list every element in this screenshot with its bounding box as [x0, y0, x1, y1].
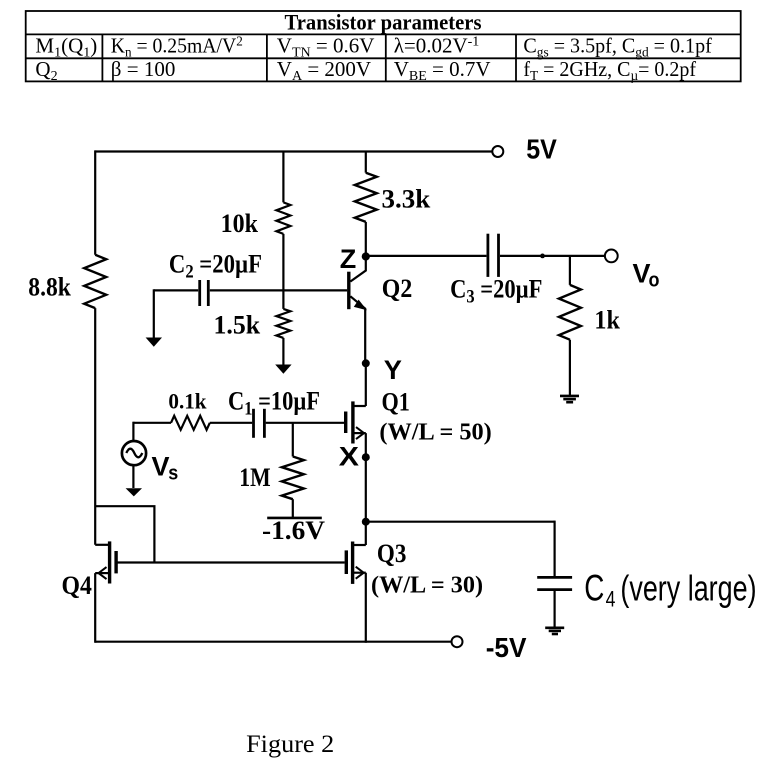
svg-text:s: s [168, 463, 178, 485]
svg-text:3.3k: 3.3k [382, 184, 431, 213]
svg-text:o: o [649, 270, 660, 292]
svg-text:1k: 1k [594, 307, 620, 335]
svg-text:8.8k: 8.8k [28, 274, 71, 302]
svg-text:C: C [584, 567, 604, 609]
svg-text:5V: 5V [526, 133, 557, 165]
svg-text:λ=0.02V-1: λ=0.02V-1 [394, 34, 480, 58]
svg-text:Figure 2: Figure 2 [246, 730, 334, 758]
svg-text:(W/L = 50): (W/L = 50) [379, 418, 491, 445]
svg-text:β = 100: β = 100 [111, 57, 176, 81]
svg-text:Z: Z [340, 244, 357, 274]
svg-text:4: 4 [606, 588, 616, 612]
svg-text:C1 =10µF: C1 =10µF [228, 387, 320, 419]
svg-text:Q4: Q4 [62, 572, 92, 600]
svg-text:C2 =20µF: C2 =20µF [169, 250, 262, 282]
svg-text:1.5k: 1.5k [214, 310, 261, 339]
svg-text:X: X [339, 442, 359, 472]
svg-text:-1.6V: -1.6V [262, 516, 325, 545]
svg-text:fT = 2GHz, Cµ= 0.2pf: fT = 2GHz, Cµ= 0.2pf [523, 57, 696, 84]
svg-text:Q3: Q3 [377, 540, 406, 569]
svg-text:(W/L = 30): (W/L = 30) [371, 573, 483, 599]
svg-text:(very large): (very large) [620, 568, 756, 609]
svg-text:10k: 10k [221, 210, 258, 238]
svg-text:Transistor parameters: Transistor parameters [285, 10, 482, 35]
svg-text:1M: 1M [239, 464, 270, 492]
svg-text:VA = 200V: VA = 200V [277, 57, 371, 84]
svg-text:Q1: Q1 [382, 388, 410, 417]
svg-text:VBE = 0.7V: VBE = 0.7V [394, 57, 491, 84]
svg-text:Q2: Q2 [382, 275, 412, 303]
svg-text:Q2: Q2 [35, 57, 57, 84]
svg-text:V: V [152, 452, 170, 482]
svg-text:C3 =20µF: C3 =20µF [450, 275, 542, 307]
svg-text:Y: Y [384, 354, 402, 385]
svg-text:0.1k: 0.1k [168, 389, 206, 413]
svg-text:-5V: -5V [486, 631, 527, 663]
